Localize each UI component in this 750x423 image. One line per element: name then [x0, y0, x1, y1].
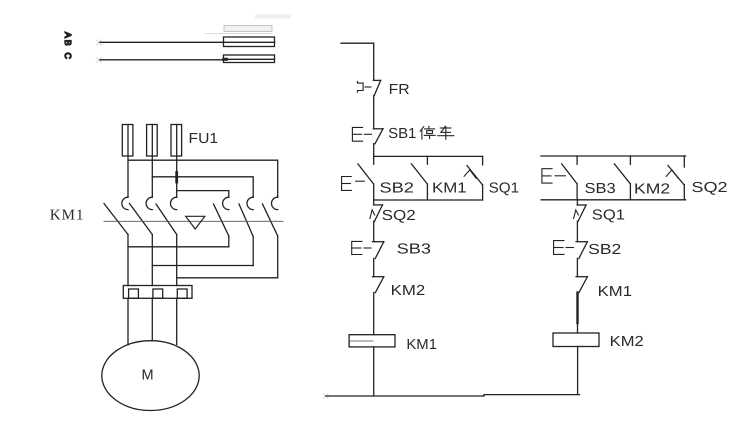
svg-text:SB3: SB3 — [585, 181, 616, 197]
hanzi ting (stop) — [420, 126, 435, 139]
svg-text:SQ1: SQ1 — [592, 207, 625, 223]
KM1 aux NO contact — [411, 156, 427, 200]
wire — [373, 144, 375, 157]
control bottom rail right — [484, 395, 580, 396]
start button SB2 NO contact — [342, 156, 374, 200]
wire — [576, 258, 578, 276]
fuse FU1 pole 2 — [147, 125, 158, 157]
fuse phase B (horizontal) — [224, 37, 275, 47]
wire — [373, 200, 375, 205]
mechanical linkage line — [104, 220, 283, 222]
rung1 parallel group bottom rail — [374, 199, 483, 201]
fuse FU1 pole 1 — [122, 125, 133, 157]
rung2 parallel group top rail — [541, 155, 686, 157]
wire — [373, 96, 375, 129]
junction blob col3 — [175, 173, 178, 183]
svg-text:SB3: SB3 — [397, 241, 431, 257]
wire — [373, 221, 375, 241]
wire branch col1 to KM2 pole3 — [128, 160, 278, 197]
rung2 parallel group bottom rail — [541, 199, 685, 201]
svg-text:SB2: SB2 — [379, 181, 414, 197]
KM1 main contact pole 1 — [104, 197, 128, 285]
wire — [577, 323, 579, 333]
wire — [373, 293, 375, 335]
wire thick segment — [576, 293, 578, 323]
svg-text:FR: FR — [389, 82, 410, 98]
svg-text:KM2: KM2 — [610, 334, 644, 350]
KM1 interlock NC contact — [576, 277, 587, 293]
coil KM2 — [553, 333, 599, 347]
limit switch SQ2 NC contact — [370, 205, 383, 221]
wire — [576, 200, 578, 205]
faint smudge above ghost fuse — [257, 15, 289, 19]
wire FR to motor phase 2 — [151, 298, 153, 341]
svg-text:SQ2: SQ2 — [382, 208, 416, 224]
wire branch col2 to KM2 pole2 — [152, 177, 253, 197]
fuse FU1 pole 3 — [171, 125, 182, 157]
end mark bottom rail — [323, 394, 328, 399]
wire KM2 pole2 to col2 — [152, 265, 253, 267]
wire column 1 (phase A to contact) — [127, 156, 129, 197]
wire — [576, 221, 578, 241]
limit switch SQ1 NO contact — [464, 156, 483, 200]
KM2 interlock NC contact — [373, 277, 384, 293]
control bottom rail left — [326, 395, 484, 397]
fuse phase C (horizontal) — [224, 55, 275, 63]
wire KM2 pole3 to col3 — [177, 277, 278, 279]
motor M — [102, 341, 199, 411]
wire phase C — [100, 59, 224, 61]
KM2 aux NO contact — [614, 156, 630, 200]
ghost fuse phase A (faint) — [205, 26, 272, 34]
button SB3 NC contact — [352, 241, 384, 258]
svg-text:SQ1: SQ1 — [489, 181, 520, 197]
svg-text:M: M — [141, 368, 153, 384]
svg-text:KM1: KM1 — [406, 337, 437, 353]
limit switch SQ2 NO contact — [666, 156, 684, 200]
wire FR to motor phase 1 — [127, 298, 129, 345]
wire column 2 — [151, 156, 153, 197]
wire — [373, 258, 375, 276]
wire FR to motor phase 3 — [176, 298, 178, 344]
thermal relay FR NC contact — [357, 80, 380, 95]
svg-text:C: C — [63, 53, 73, 60]
thermal relay FR heater block — [123, 286, 192, 299]
control bus top wire — [341, 43, 374, 80]
svg-text:KM2: KM2 — [391, 283, 426, 299]
stop button SB1 NC contact — [352, 127, 383, 143]
button SB2 NC contact — [554, 241, 588, 259]
end mark phase B — [97, 40, 102, 45]
svg-text:SB2: SB2 — [588, 242, 621, 258]
junction blob phase C — [224, 58, 227, 61]
svg-text:B: B — [63, 40, 73, 46]
wire branch col3 to KM2 pole1 — [177, 191, 229, 198]
svg-text:KM1: KM1 — [432, 181, 467, 197]
wire coil KM2 to bottom rail — [577, 347, 579, 395]
svg-text:KM1: KM1 — [50, 208, 85, 224]
KM2 main contact pole 1 — [214, 197, 229, 247]
svg-text:SB1: SB1 — [388, 126, 416, 142]
svg-text:KM2: KM2 — [634, 181, 670, 197]
end mark phase C — [97, 58, 102, 63]
wire column 3 — [176, 156, 178, 197]
label SB1 stop — [388, 126, 416, 142]
wire coil KM1 to bottom rail — [373, 347, 375, 396]
KM2 main contact pole 2 — [239, 197, 253, 265]
KM2 main contact pole 3 — [263, 197, 278, 278]
svg-text:SQ2: SQ2 — [691, 180, 727, 196]
svg-text:KM1: KM1 — [598, 284, 632, 300]
coil KM1 — [349, 335, 395, 347]
limit switch SQ1 NC contact — [574, 205, 587, 221]
wire KM2 pole1 to col1 — [128, 246, 229, 248]
linkage triangle — [186, 216, 205, 229]
svg-text:FU1: FU1 — [189, 131, 219, 147]
svg-text:A: A — [63, 32, 73, 38]
rung1 parallel group top rail — [374, 155, 483, 157]
hanzi che (car) — [438, 126, 454, 139]
KM1 main contact pole 2 — [130, 197, 153, 285]
KM1 main contact pole 3 — [156, 197, 177, 285]
start button SB3 NO contact — [542, 156, 577, 200]
wire phase B — [100, 41, 224, 43]
